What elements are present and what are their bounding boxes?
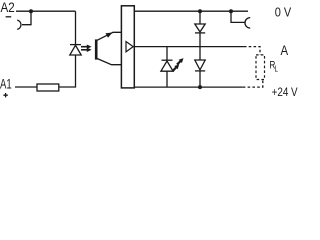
top rail 0V bbox=[134, 10, 248, 12]
svg-text:A: A bbox=[281, 42, 289, 58]
junction dot 0V drop bbox=[229, 9, 233, 13]
wire: drop to right socket bbox=[231, 11, 246, 22]
wire: LED branch upper bbox=[75, 11, 77, 44]
junction dot D2 bottom bbox=[198, 85, 202, 89]
diode D1 bbox=[199, 11, 201, 24]
input LED D4 bbox=[70, 44, 81, 46]
light emission arrows bbox=[81, 47, 87, 50]
wire: A1 lead bbox=[15, 86, 37, 88]
module box U1 bbox=[121, 6, 134, 88]
indicator LED D3 bbox=[166, 47, 168, 61]
plus polarity mark bbox=[3, 93, 7, 97]
dashed wire middle rail to RL bbox=[244, 47, 260, 55]
phototransistor emitter arrow bbox=[106, 33, 113, 38]
svg-text:A1: A1 bbox=[0, 75, 12, 91]
wire: A2 lead bbox=[16, 10, 76, 12]
svg-text:A2: A2 bbox=[1, 0, 15, 15]
flash arrows LED indicator bbox=[172, 64, 179, 71]
phototransistor lower lead bbox=[97, 58, 122, 64]
junction dot node A2 bbox=[29, 9, 33, 13]
resistor R1 bbox=[37, 84, 59, 91]
amplifier triangle bbox=[126, 42, 133, 52]
wire: drop to left socket bbox=[22, 11, 31, 25]
svg-text:+24 V: +24 V bbox=[272, 85, 298, 99]
phototransistor collector lead bbox=[97, 32, 122, 40]
bottom rail +24V bbox=[134, 86, 243, 88]
svg-text:0 V: 0 V bbox=[275, 5, 292, 20]
phototransistor Q1 base bar bbox=[95, 39, 98, 59]
minus polarity mark bbox=[6, 16, 12, 18]
wire: LED branch lower bbox=[59, 55, 76, 87]
socket contact left bbox=[17, 20, 21, 29]
dashed wire RL to bottom rail bbox=[243, 80, 263, 88]
junction dot D1 top bbox=[198, 9, 202, 13]
wire D1 to D2 bbox=[199, 33, 201, 60]
middle rail output A bbox=[134, 46, 244, 48]
svg-text:L: L bbox=[275, 64, 279, 73]
load resistor RL dashed box bbox=[256, 55, 265, 80]
socket contact right bbox=[245, 18, 250, 29]
diode D2 bbox=[195, 60, 205, 70]
